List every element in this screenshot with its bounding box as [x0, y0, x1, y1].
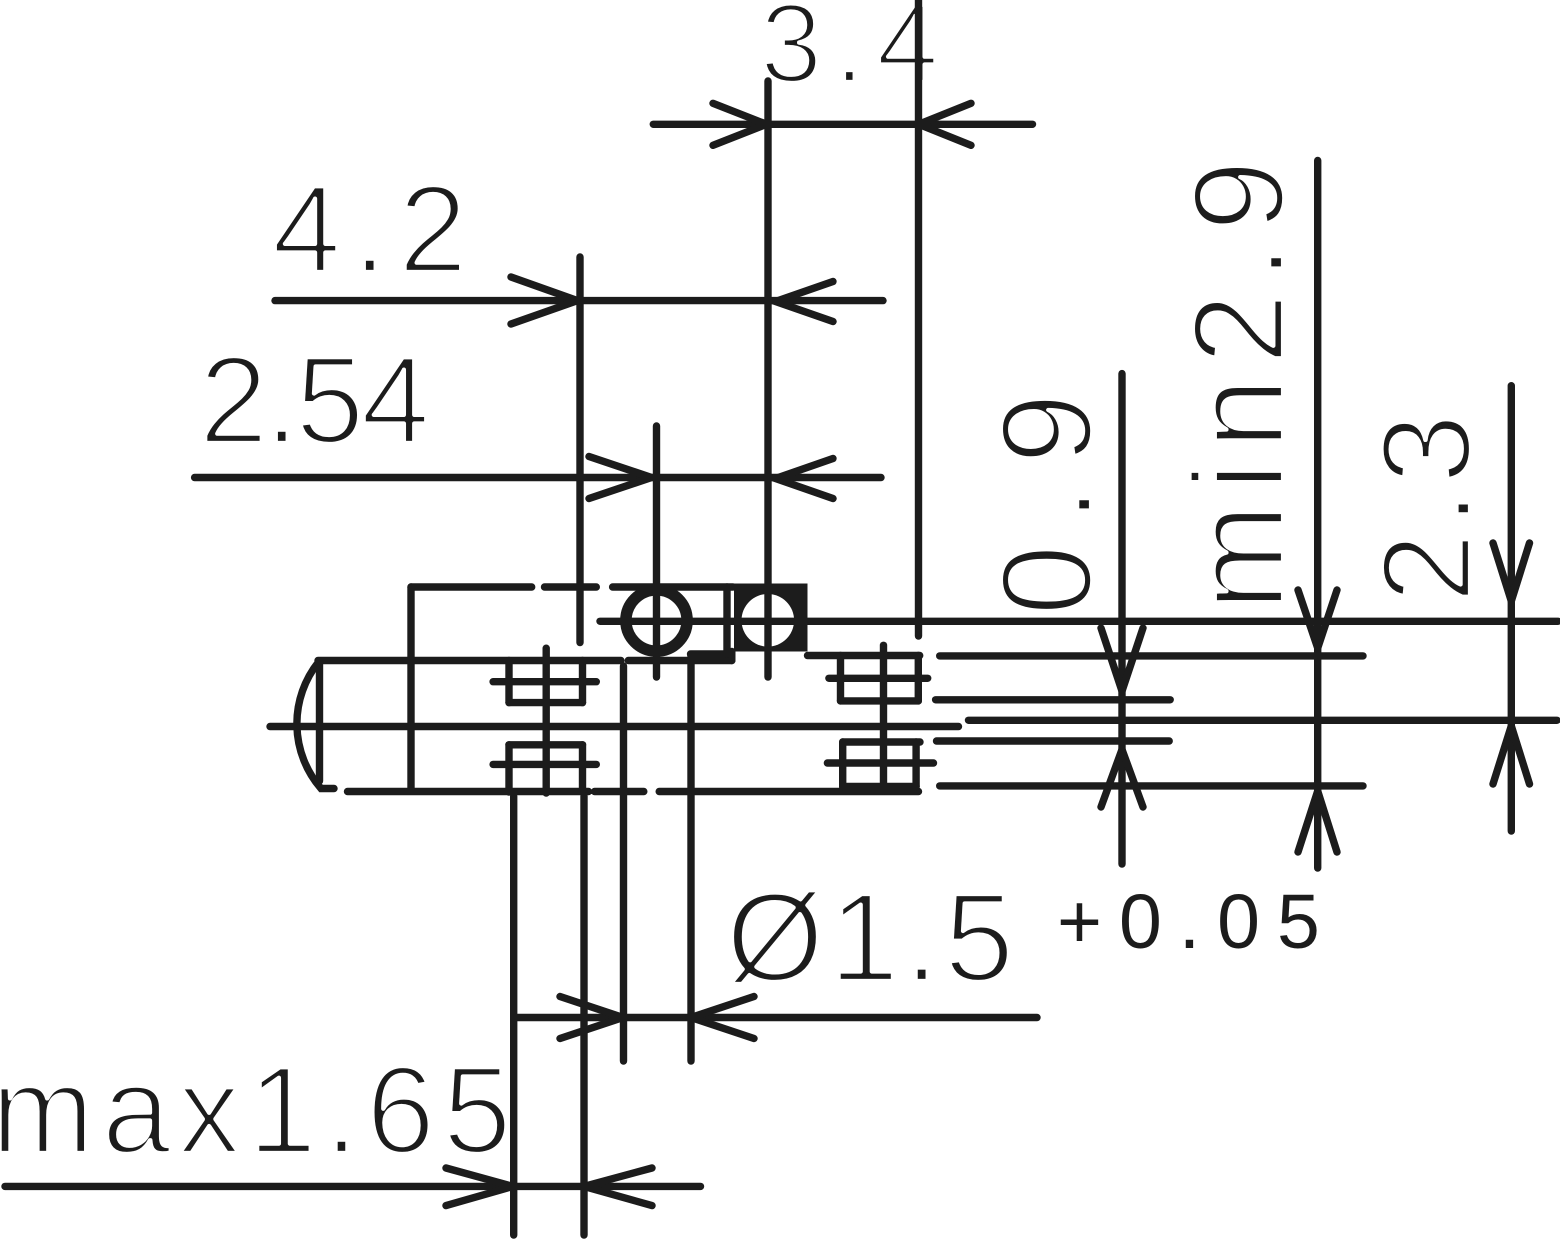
left contact upper crossing line — [493, 678, 596, 685]
arrow max1.65 left (pointing right) — [446, 1168, 513, 1206]
right contact lower crossing line — [827, 759, 933, 766]
housing left vertical — [407, 587, 414, 789]
arrow 2.54 right (pointing left at pin2 line) — [776, 459, 834, 499]
dim line 3.4 — [653, 121, 1032, 128]
pin hole left tangent extension (dia 1.5 left) — [620, 666, 627, 1061]
left contact lower box right side — [579, 745, 586, 792]
right contact lower box left side — [839, 742, 846, 787]
dim line 2.54 — [195, 474, 881, 481]
pin hole right tangent extension (dia 1.5 right) — [687, 655, 694, 1061]
arrow 4.2 left (pointing right at x=580) — [511, 277, 578, 324]
arrow 3.4 right (pointing left at x=918.5) — [919, 103, 971, 145]
left contact upper box left side — [505, 661, 512, 703]
extension line 3.4 right — [915, 0, 922, 636]
right contact centerline — [880, 645, 887, 791]
arrow 0.9 up — [1101, 750, 1143, 808]
arrow 3.4 left (pointing right at pin2 line) — [713, 103, 767, 145]
pin2 centerline (3.4/4.2/2.54 extension) — [764, 81, 771, 677]
svg-text:min2.9: min2.9 — [1167, 147, 1311, 611]
centerline right extension (2.3 lower bound) — [969, 717, 1558, 724]
body top edge left — [318, 657, 732, 664]
left contact upper box right side — [579, 661, 586, 703]
slot bottom line between pins — [691, 650, 728, 657]
left contact lower crossing line — [493, 761, 596, 768]
svg-text:2.54: 2.54 — [199, 332, 427, 470]
step at pad left — [728, 652, 735, 661]
svg-text:2.3: 2.3 — [1356, 407, 1497, 603]
arrow 4.2 right (pointing left at pin2 line) — [776, 282, 834, 322]
arrow min2.9 down — [1298, 590, 1337, 648]
pcb top extension (0.9 upper) — [936, 696, 1171, 703]
left contact upper box bottom — [509, 699, 583, 706]
body left cap vertical — [316, 661, 323, 781]
housing top line (tangent to pins) — [411, 583, 733, 590]
svg-text:0.9: 0.9 — [975, 371, 1119, 616]
dim line min2.9 vertical — [1314, 161, 1321, 869]
dim line max1.65 — [5, 1183, 701, 1190]
right contact upper box bottom — [841, 697, 919, 704]
arrow 2.3 down — [1493, 543, 1530, 601]
slot right edge — [723, 587, 730, 654]
body top edge right — [808, 652, 920, 659]
right contact lower box bottom — [843, 783, 916, 790]
arrow dia1.5 right (pointing left) — [691, 997, 754, 1039]
arrow 0.9 down — [1101, 628, 1143, 691]
extension line 4.2 left — [576, 257, 583, 643]
arrow min2.9 up — [1298, 791, 1337, 852]
contact width extension left (max1.65) — [510, 796, 517, 1235]
body top extension right (min2.9 upper) — [940, 652, 1363, 659]
right contact lower box top — [843, 738, 920, 745]
right contact lower box right side — [912, 742, 919, 787]
pad fill (pin2 seat) — [734, 584, 808, 652]
left contact lower box top — [509, 741, 583, 748]
left contact centerline — [543, 648, 550, 793]
left contact lower box left side — [505, 745, 512, 792]
right contact upper crossing line — [829, 675, 928, 682]
dim line 0.9 vertical — [1118, 374, 1125, 864]
arrow 2.54 left (pointing right at pin1 line) — [589, 457, 652, 499]
pcb bottom extension (0.9 lower) — [937, 737, 1170, 744]
pin axis horizontal line — [600, 618, 1558, 625]
dim line dia1.5 — [514, 1014, 1037, 1021]
pin1 hole circle — [626, 590, 687, 651]
arrow dia1.5 left (pointing right) — [560, 997, 623, 1039]
body centerline — [270, 723, 959, 730]
contact width extension right (max1.65) — [580, 796, 587, 1235]
body bottom edge — [348, 788, 919, 795]
pad hole (pin2) — [742, 594, 795, 647]
svg-text:4.2: 4.2 — [272, 161, 479, 299]
dim line 2.3 vertical — [1508, 386, 1515, 831]
pin1 centerline (2.54 left extension) — [653, 426, 660, 677]
arrow 2.3 up — [1493, 726, 1530, 784]
svg-text:Ø1.5: Ø1.5 — [726, 867, 1019, 1008]
right contact upper box right side — [915, 656, 922, 701]
svg-text:+0.05: +0.05 — [1057, 879, 1337, 965]
body bottom extension right (min2.9 lower) — [940, 782, 1363, 789]
arrow max1.65 right (pointing left) — [584, 1168, 652, 1206]
svg-text:max1.65: max1.65 — [0, 1042, 519, 1180]
body left cap arc — [297, 662, 334, 789]
dim line 4.2 — [275, 297, 883, 304]
right contact upper box left side — [837, 656, 844, 701]
